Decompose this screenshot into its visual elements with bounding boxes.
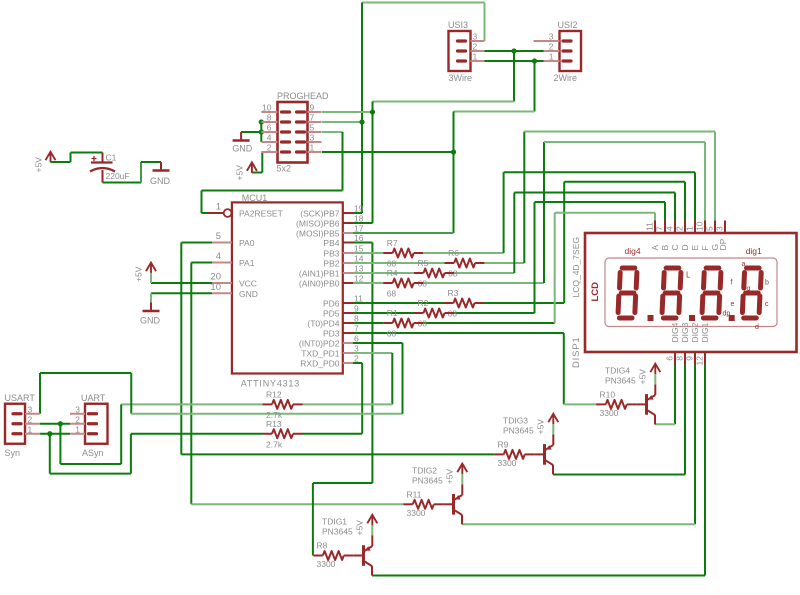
svg-text:b: b: [765, 280, 769, 287]
svg-text:DIG1: DIG1: [700, 322, 710, 342]
svg-text:12: 12: [695, 356, 705, 366]
svg-text:9: 9: [310, 103, 315, 113]
svg-text:+5V: +5V: [355, 520, 365, 536]
svg-text:18: 18: [354, 214, 364, 224]
svg-text:DISP1: DISP1: [571, 337, 582, 368]
svg-text:1: 1: [216, 202, 221, 213]
svg-text:15: 15: [354, 244, 364, 254]
svg-text:2: 2: [267, 143, 272, 153]
svg-text:R12: R12: [266, 389, 282, 399]
svg-text:2: 2: [354, 354, 359, 364]
svg-text:7: 7: [655, 226, 665, 231]
svg-text:14: 14: [354, 254, 364, 264]
svg-text:UART: UART: [81, 393, 106, 403]
svg-text:3: 3: [473, 32, 478, 42]
svg-text:TDIG4: TDIG4: [605, 365, 630, 375]
svg-text:C: C: [670, 244, 680, 250]
svg-text:4: 4: [267, 133, 272, 143]
svg-text:GND: GND: [239, 289, 258, 299]
svg-text:+5V: +5V: [134, 266, 144, 282]
svg-text:8: 8: [675, 356, 685, 361]
svg-text:12: 12: [354, 274, 364, 284]
svg-text:6: 6: [354, 334, 359, 344]
svg-text:F: F: [700, 245, 710, 250]
svg-text:PN3645: PN3645: [503, 425, 534, 435]
svg-text:LCQ_4D_7SEG: LCQ_4D_7SEG: [571, 237, 581, 297]
svg-text:PN3645: PN3645: [412, 475, 443, 485]
svg-text:PD5: PD5: [323, 309, 340, 319]
svg-text:3300: 3300: [407, 508, 426, 518]
svg-text:5: 5: [705, 226, 715, 231]
svg-text:ASyn: ASyn: [82, 448, 104, 458]
svg-text:R1: R1: [387, 308, 398, 318]
svg-text:VCC: VCC: [239, 279, 257, 289]
svg-text:1: 1: [549, 52, 554, 62]
svg-text:R8: R8: [317, 541, 328, 551]
svg-text:g: g: [747, 286, 751, 293]
svg-text:PA2RESET: PA2RESET: [239, 209, 283, 219]
svg-text:5x2: 5x2: [277, 164, 292, 174]
svg-text:E: E: [690, 245, 700, 251]
svg-text:3: 3: [310, 133, 315, 143]
svg-text:13: 13: [354, 264, 364, 274]
svg-text:1: 1: [28, 424, 33, 434]
svg-text:(T0)PD4: (T0)PD4: [307, 319, 339, 329]
svg-text:R11: R11: [407, 489, 422, 499]
svg-text:e: e: [731, 301, 735, 308]
svg-text:9: 9: [685, 356, 695, 361]
svg-text:9: 9: [354, 304, 359, 314]
svg-text:19: 19: [354, 204, 364, 214]
svg-text:PD3: PD3: [323, 329, 340, 339]
svg-text:11: 11: [354, 294, 363, 304]
svg-text:B: B: [660, 245, 670, 251]
svg-text:PD6: PD6: [323, 299, 340, 309]
svg-text:10: 10: [210, 282, 221, 293]
svg-text:TDIG1: TDIG1: [322, 517, 347, 527]
svg-text:1: 1: [685, 226, 695, 231]
svg-text:3300: 3300: [317, 559, 336, 569]
svg-text:f: f: [731, 280, 733, 287]
svg-text:dp: dp: [723, 311, 731, 318]
svg-text:(AIN1)PB1: (AIN1)PB1: [299, 269, 340, 279]
svg-text:R7: R7: [387, 238, 398, 248]
svg-text:2Wire: 2Wire: [554, 73, 578, 83]
svg-text:8: 8: [354, 314, 359, 324]
svg-text:+5V: +5V: [235, 165, 245, 181]
svg-text:+5V: +5V: [34, 157, 44, 173]
svg-text:PROGHEAD: PROGHEAD: [277, 91, 329, 101]
svg-text:R2: R2: [418, 298, 429, 308]
svg-text:PB4: PB4: [323, 238, 339, 248]
svg-text:2: 2: [473, 42, 478, 52]
svg-text:68: 68: [387, 259, 397, 269]
svg-text:L: L: [686, 270, 691, 279]
svg-text:R10: R10: [600, 389, 616, 399]
svg-text:3: 3: [715, 226, 725, 231]
svg-text:(SCK)PB7: (SCK)PB7: [300, 209, 339, 219]
svg-text:5: 5: [216, 231, 221, 242]
svg-text:+5V: +5V: [536, 419, 546, 435]
svg-text:USI2: USI2: [558, 20, 578, 30]
svg-text:PN3645: PN3645: [605, 375, 636, 385]
svg-text:DIG4: DIG4: [670, 322, 680, 342]
svg-text:TDIG3: TDIG3: [503, 415, 528, 425]
svg-text:c: c: [765, 301, 769, 308]
svg-text:PN3645: PN3645: [322, 527, 353, 537]
svg-text:3: 3: [549, 32, 554, 42]
svg-text:DIG2: DIG2: [690, 322, 700, 342]
svg-text:6: 6: [267, 123, 272, 133]
svg-text:68: 68: [387, 329, 397, 339]
svg-text:PA0: PA0: [239, 238, 255, 248]
svg-text:d: d: [755, 324, 759, 331]
svg-text:3300: 3300: [600, 408, 619, 418]
svg-text:(MOSI)PB5: (MOSI)PB5: [296, 229, 340, 239]
svg-text:TXD_PD1: TXD_PD1: [301, 349, 340, 359]
svg-text:3300: 3300: [498, 458, 517, 468]
svg-text:68: 68: [387, 289, 397, 299]
svg-text:17: 17: [354, 224, 364, 234]
svg-text:1: 1: [75, 424, 80, 434]
svg-text:7: 7: [310, 113, 315, 123]
svg-text:PB3: PB3: [323, 249, 339, 259]
svg-text:ATTINY4313: ATTINY4313: [241, 379, 300, 389]
svg-text:R5: R5: [418, 258, 429, 268]
svg-text:+5V: +5V: [445, 469, 455, 485]
svg-text:11: 11: [645, 222, 655, 231]
svg-text:USART: USART: [5, 393, 36, 403]
svg-text:6: 6: [665, 356, 675, 361]
svg-text:dig4: dig4: [625, 246, 641, 256]
svg-text:R3: R3: [448, 288, 459, 298]
svg-text:USI3: USI3: [448, 20, 468, 30]
svg-text:R6: R6: [448, 248, 459, 258]
svg-text:(MISO)PB6: (MISO)PB6: [296, 219, 340, 229]
svg-text:PA1: PA1: [239, 258, 255, 268]
svg-text:DP: DP: [718, 238, 728, 250]
svg-text:GND: GND: [232, 144, 253, 154]
svg-text:R4: R4: [387, 268, 398, 278]
svg-text:3: 3: [75, 404, 80, 414]
svg-text:4: 4: [665, 226, 675, 231]
svg-text:2.7k: 2.7k: [266, 439, 283, 449]
svg-text:10: 10: [695, 221, 705, 231]
svg-text:2: 2: [675, 226, 685, 231]
svg-text:2: 2: [549, 42, 554, 52]
svg-text:A: A: [650, 245, 660, 251]
svg-text:10: 10: [262, 103, 272, 113]
svg-text:3: 3: [354, 344, 359, 354]
svg-text:GND: GND: [150, 176, 171, 186]
svg-text:TDIG2: TDIG2: [412, 465, 437, 475]
svg-text:2: 2: [28, 414, 33, 424]
svg-text:R13: R13: [266, 419, 282, 429]
svg-text:16: 16: [354, 233, 364, 243]
svg-text:Syn: Syn: [5, 448, 21, 458]
svg-text:DIG3: DIG3: [680, 322, 690, 342]
svg-text:RXD_PD0: RXD_PD0: [300, 359, 339, 369]
svg-text:PB2: PB2: [323, 259, 339, 269]
svg-text:D: D: [680, 244, 690, 250]
svg-text:MCU1: MCU1: [242, 193, 268, 203]
svg-text:2: 2: [75, 414, 80, 424]
svg-text:a: a: [742, 261, 746, 268]
svg-text:1: 1: [310, 143, 315, 153]
svg-text:8: 8: [267, 113, 272, 123]
svg-text:1: 1: [473, 52, 478, 62]
svg-text:LCD: LCD: [590, 282, 601, 302]
svg-text:7: 7: [354, 324, 359, 334]
svg-text:4: 4: [216, 251, 221, 262]
svg-text:dig1: dig1: [746, 246, 762, 256]
svg-text:3: 3: [28, 404, 33, 414]
svg-text:(INT0)PD2: (INT0)PD2: [299, 339, 340, 349]
svg-text:C1: C1: [106, 153, 117, 163]
svg-text:GND: GND: [140, 316, 161, 326]
svg-text:5: 5: [310, 123, 315, 133]
svg-text:R9: R9: [498, 439, 509, 449]
svg-text:220uF: 220uF: [106, 171, 130, 181]
svg-text:3Wire: 3Wire: [449, 73, 473, 83]
svg-text:+5V: +5V: [638, 369, 648, 385]
svg-text:(AIN0)PB0: (AIN0)PB0: [299, 279, 340, 289]
